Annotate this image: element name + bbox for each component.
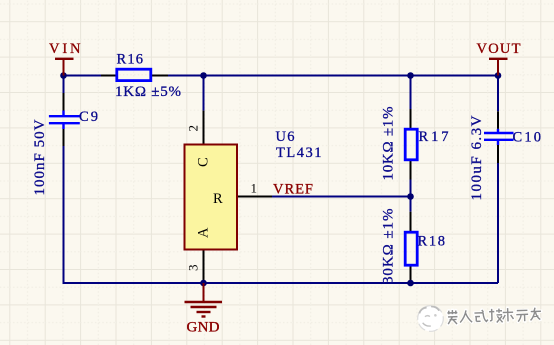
- svg-text:TL431: TL431: [276, 145, 322, 161]
- svg-text:1: 1: [251, 181, 258, 196]
- svg-text:2: 2: [186, 125, 201, 132]
- svg-text:VIN: VIN: [49, 41, 81, 57]
- svg-text:R17: R17: [419, 129, 449, 145]
- svg-text:C10: C10: [513, 130, 542, 146]
- svg-text:GND: GND: [187, 320, 220, 336]
- svg-text:C: C: [196, 157, 212, 167]
- svg-text:3: 3: [186, 265, 201, 272]
- svg-text:R16: R16: [117, 52, 144, 68]
- svg-text:A: A: [196, 227, 212, 238]
- svg-text:100nF 50V: 100nF 50V: [32, 119, 48, 195]
- svg-text:100uF 6.3V: 100uF 6.3V: [469, 115, 485, 200]
- svg-text:R18: R18: [418, 234, 446, 250]
- svg-text:VOUT: VOUT: [477, 41, 521, 57]
- svg-text:U6: U6: [276, 129, 295, 145]
- svg-text:C9: C9: [79, 109, 98, 125]
- svg-text:30KΩ ±1%: 30KΩ ±1%: [381, 209, 397, 285]
- svg-text:R: R: [213, 191, 223, 207]
- svg-text:VREF: VREF: [273, 182, 313, 198]
- svg-text:10KΩ ±1%: 10KΩ ±1%: [381, 107, 397, 181]
- svg-text:1KΩ ±5%: 1KΩ ±5%: [115, 84, 181, 100]
